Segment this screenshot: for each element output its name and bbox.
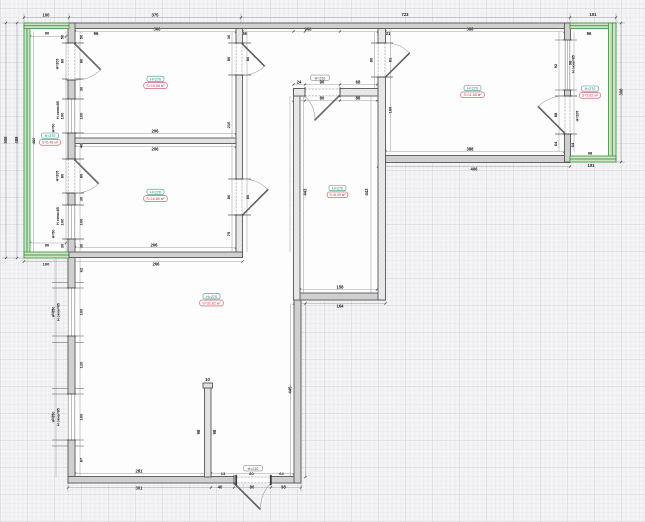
wall W_E middle right	[378, 29, 386, 301]
svg-text:87: 87	[79, 457, 84, 462]
svg-text:488: 488	[14, 136, 19, 144]
label top-right room	[461, 86, 485, 98]
svg-text:723: 723	[402, 12, 410, 17]
svg-text:120: 120	[79, 361, 84, 368]
svg-text:966: 966	[305, 27, 313, 32]
svg-text:80: 80	[226, 194, 231, 199]
svg-text:445: 445	[288, 386, 293, 394]
green wall left loggia left	[24, 23, 30, 258]
svg-text:88: 88	[553, 112, 558, 117]
svg-text:H=270: H=270	[206, 295, 217, 299]
svg-text:164: 164	[337, 304, 345, 309]
svg-text:80: 80	[245, 56, 250, 61]
door corridor to top-right room	[377, 43, 410, 77]
svg-text:H окна=85: H окна=85	[572, 55, 576, 73]
svg-text:101: 101	[590, 12, 598, 17]
svg-text:75: 75	[226, 231, 231, 236]
svg-text:90: 90	[320, 79, 325, 84]
svg-text:90: 90	[45, 31, 50, 36]
svg-text:96: 96	[587, 31, 592, 36]
svg-text:36: 36	[242, 31, 247, 36]
svg-text:508: 508	[3, 136, 8, 144]
svg-text:98: 98	[212, 429, 217, 434]
svg-text:62: 62	[79, 267, 84, 272]
svg-text:30: 30	[79, 196, 84, 201]
label right loggia	[580, 86, 601, 98]
svg-text:80: 80	[226, 56, 231, 61]
label room2	[144, 189, 168, 201]
svg-text:H=50: H=50	[52, 230, 56, 239]
svg-text:366: 366	[154, 27, 162, 32]
svg-text:H=270: H=270	[332, 187, 343, 191]
label H=210 middle door	[311, 75, 330, 80]
green wall left loggia bottom	[24, 252, 69, 258]
svg-text:92: 92	[553, 63, 558, 68]
wall left main	[68, 23, 75, 483]
svg-text:100: 100	[43, 13, 51, 18]
svg-text:H окна=85: H окна=85	[57, 408, 61, 426]
svg-text:281: 281	[136, 469, 144, 474]
svg-text:S=16.88 м²: S=16.88 м²	[146, 84, 165, 88]
svg-text:100: 100	[79, 308, 84, 315]
door loggia to room1	[67, 43, 101, 80]
svg-text:100: 100	[60, 112, 65, 119]
svg-text:80: 80	[249, 471, 254, 476]
svg-text:80: 80	[320, 96, 325, 101]
window big room lower	[67, 394, 76, 440]
wire dim rails right loggia wall	[555, 32, 577, 153]
svg-text:80: 80	[79, 58, 84, 63]
svg-text:30: 30	[226, 34, 231, 39]
wall bottom outer	[68, 477, 301, 484]
svg-text:100: 100	[79, 413, 84, 420]
svg-text:50: 50	[79, 34, 84, 39]
door top-right room to loggia	[538, 96, 572, 134]
svg-text:86: 86	[356, 96, 361, 101]
svg-text:443: 443	[364, 188, 369, 196]
svg-text:388: 388	[467, 147, 475, 152]
svg-text:30: 30	[79, 243, 84, 248]
svg-text:H окна=85: H окна=85	[56, 101, 60, 119]
wall between room1 room2	[75, 138, 236, 144]
svg-text:98: 98	[196, 429, 201, 434]
label middle room	[327, 186, 348, 198]
svg-text:80: 80	[79, 173, 84, 178]
svg-text:98: 98	[588, 151, 593, 156]
svg-text:64: 64	[553, 141, 558, 146]
wall below room2	[69, 252, 243, 258]
wire dim rails around W_E wall	[371, 32, 393, 152]
svg-text:H=270: H=270	[467, 87, 478, 91]
wire dim rail bottom outer	[67, 483, 302, 492]
wire dim rail big room bottom	[74, 304, 295, 478]
svg-text:206: 206	[152, 147, 160, 152]
wire dim rail top-right room right side	[555, 32, 577, 152]
svg-text:50: 50	[60, 34, 65, 39]
svg-text:81: 81	[388, 57, 393, 62]
svg-text:40: 40	[218, 484, 223, 489]
svg-text:80: 80	[245, 194, 250, 199]
label H=210 entrance	[244, 466, 263, 471]
wire dim rail left outer	[2, 22, 24, 259]
svg-text:H=205: H=205	[576, 111, 580, 122]
svg-text:160: 160	[388, 106, 393, 113]
svg-text:206: 206	[152, 129, 160, 134]
svg-text:31: 31	[386, 31, 391, 36]
svg-text:100: 100	[79, 218, 84, 225]
wall right loggia left	[565, 23, 571, 162]
svg-text:H=270: H=270	[45, 134, 56, 138]
svg-text:206: 206	[151, 243, 159, 248]
svg-text:H окна=85: H окна=85	[57, 303, 61, 321]
svg-text:100: 100	[79, 112, 84, 119]
wall partition near entrance	[205, 385, 212, 477]
door room1 to corridor	[235, 43, 265, 75]
wire dim rail right outer	[616, 22, 625, 163]
label left loggia	[40, 133, 61, 145]
window room1	[67, 99, 76, 133]
svg-text:30: 30	[60, 243, 65, 248]
window big room upper	[67, 288, 76, 336]
wall rooms divider W_C	[236, 29, 243, 258]
door entrance	[234, 475, 271, 509]
svg-text:158: 158	[337, 285, 345, 290]
wire dim lines middle room top	[292, 83, 378, 101]
wall right of big room	[294, 300, 301, 483]
door corridor to middle room	[305, 87, 340, 120]
svg-text:96: 96	[94, 31, 99, 36]
svg-text:100: 100	[60, 218, 65, 225]
svg-text:H=270: H=270	[150, 190, 161, 194]
svg-text:H=205: H=205	[56, 59, 60, 70]
door room2 to corridor	[235, 179, 269, 215]
svg-text:443: 443	[303, 188, 308, 196]
svg-text:308: 308	[619, 88, 624, 96]
svg-text:406: 406	[471, 167, 479, 172]
wire dim rails middle room verticals	[290, 96, 371, 293]
svg-text:98: 98	[281, 484, 286, 489]
svg-text:266: 266	[153, 262, 161, 267]
green wall right loggia right	[609, 23, 617, 162]
svg-text:80: 80	[60, 58, 65, 63]
svg-text:10: 10	[205, 377, 210, 382]
svg-text:24: 24	[297, 79, 302, 84]
svg-text:68: 68	[356, 79, 361, 84]
svg-text:S=31.62 м²: S=31.62 м²	[202, 301, 221, 305]
svg-text:80: 80	[250, 484, 255, 489]
svg-text:80: 80	[369, 57, 374, 62]
window top-right room to loggia	[563, 40, 571, 90]
wire dim rails around W_C wall	[228, 32, 251, 253]
green wall left loggia top	[24, 23, 69, 29]
svg-text:H=150: H=150	[52, 412, 56, 423]
wire dim lines around middle room bottom wall	[293, 288, 387, 304]
label big room	[200, 294, 224, 306]
svg-text:40: 40	[79, 143, 84, 148]
svg-text:S=8.09 м²: S=8.09 м²	[329, 193, 346, 197]
svg-text:S=6.48 м²: S=6.48 м²	[42, 141, 59, 145]
wire dim rails around left wall	[52, 32, 84, 478]
wire dim rail inside left loggia	[29, 32, 67, 253]
svg-text:S=11.68 м²: S=11.68 м²	[464, 93, 483, 97]
wall top outer	[69, 23, 568, 29]
green wall right loggia top	[570, 23, 616, 29]
svg-text:64: 64	[570, 142, 575, 147]
wire dim line top inner	[74, 30, 566, 32]
wire dim lines rooms divider	[74, 132, 237, 147]
svg-text:30: 30	[79, 86, 84, 91]
wall W_D corridor right	[294, 89, 301, 301]
wall bottom of top-right room	[386, 156, 571, 163]
wall bottom of middle room	[294, 293, 386, 300]
svg-text:S=3.82 м²: S=3.82 м²	[582, 94, 599, 98]
svg-text:101: 101	[588, 163, 596, 168]
svg-text:H=270: H=270	[150, 77, 161, 81]
svg-text:301: 301	[136, 485, 144, 490]
svg-text:H окна=85: H окна=85	[56, 207, 60, 225]
svg-text:460: 460	[31, 137, 36, 144]
svg-text:H=50: H=50	[52, 124, 56, 133]
door loggia to room2	[67, 159, 99, 193]
green wall right loggia bottom	[570, 156, 616, 162]
svg-text:H=205: H=205	[56, 171, 60, 182]
svg-text:80: 80	[60, 173, 65, 178]
svg-text:210: 210	[226, 121, 231, 128]
svg-text:90: 90	[45, 243, 50, 248]
label room1	[144, 76, 168, 88]
wall hatched top of middle room	[294, 89, 379, 97]
svg-text:64: 64	[279, 471, 284, 476]
wire dim rail top	[23, 14, 617, 24]
svg-text:H=150: H=150	[52, 307, 56, 318]
wire dim lines below rooms	[23, 246, 244, 262]
window room2	[67, 205, 76, 239]
svg-text:388: 388	[467, 27, 475, 32]
svg-text:13: 13	[221, 471, 226, 476]
svg-text:H=270: H=270	[585, 87, 596, 91]
svg-text:S=16.80 м²: S=16.80 м²	[146, 197, 165, 201]
svg-text:100: 100	[43, 262, 50, 267]
wire dim lines around top-right bottom wall	[377, 150, 571, 167]
entrance jamb bars	[235, 475, 237, 485]
svg-text:375: 375	[152, 13, 160, 18]
